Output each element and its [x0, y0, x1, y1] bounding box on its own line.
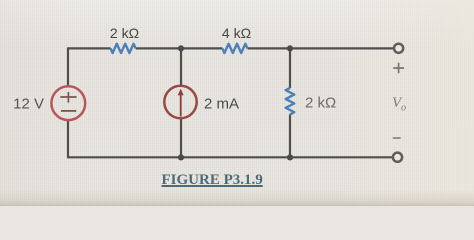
svg-text:2 kΩ: 2 kΩ — [110, 25, 139, 41]
svg-text:Vo: Vo — [392, 95, 406, 114]
wire middle branch lower — [180, 119, 182, 157]
wire top-middle segment — [136, 47, 223, 49]
node dot top middle — [178, 45, 184, 51]
svg-text:2 kΩ: 2 kΩ — [305, 95, 336, 112]
terminal circle top — [394, 44, 403, 53]
node dot bottom right — [287, 154, 293, 160]
svg-text:4 kΩ: 4 kΩ — [222, 25, 251, 41]
wire right branch lower — [289, 114, 291, 157]
node dot bottom middle — [178, 154, 184, 160]
terminal circle bottom — [393, 153, 402, 162]
svg-text:12 V: 12 V — [13, 96, 44, 113]
minus sign terminal — [393, 137, 401, 139]
wire top-right segment — [248, 47, 395, 49]
resistor R2 4k horizontal zigzag — [222, 44, 247, 53]
wire left branch lower — [67, 119, 69, 158]
wire middle branch upper — [180, 48, 182, 87]
current source arrow shaft — [180, 94, 182, 117]
caption FIGURE P3.1.9 — [162, 172, 322, 189]
node dot top right — [287, 45, 293, 51]
voltage source V1 circle — [51, 86, 85, 120]
wire top-left segment — [68, 47, 111, 49]
wire left branch upper — [67, 47, 69, 87]
wire bottom — [68, 156, 393, 158]
voltage source plus sign — [60, 92, 76, 103]
resistor R3 2k vertical zigzag — [286, 88, 295, 114]
svg-text:2 mA: 2 mA — [204, 96, 239, 113]
current source arrow head — [178, 89, 184, 96]
wire right branch upper — [289, 48, 291, 88]
resistor R1 2k horizontal zigzag — [111, 44, 136, 53]
plus sign terminal — [393, 63, 404, 74]
voltage source minus sign — [61, 110, 76, 112]
current source I1 circle — [164, 86, 196, 118]
